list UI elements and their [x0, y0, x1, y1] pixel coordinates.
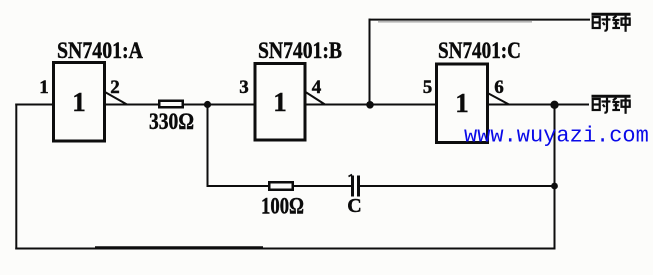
capacitor C left plate — [351, 176, 354, 197]
op-amp U1 gate SN7401:A body — [54, 63, 105, 142]
clock label (right of gate C output) 时钟 — [592, 96, 631, 114]
clock label (top right) 时钟 — [592, 14, 631, 32]
svg-text:6: 6 — [494, 77, 504, 98]
wire gate C output to clock label — [488, 104, 589, 106]
wire feedback to resistor R2 — [207, 185, 270, 187]
svg-text:www.wuyazi.com: www.wuyazi.com — [464, 124, 649, 149]
resistor R2 100 ohm body — [269, 182, 293, 190]
gate A open-collector slash — [104, 92, 127, 105]
svg-text:SN7401:C: SN7401:C — [438, 38, 521, 63]
svg-text:4: 4 — [312, 77, 322, 98]
svg-text:SN7401:A: SN7401:A — [57, 38, 143, 63]
svg-text:100Ω: 100Ω — [261, 194, 304, 219]
svg-text:C: C — [347, 195, 361, 217]
wire gate A output to resistor R1 — [105, 104, 159, 106]
wire gate B output to gate C pin 5 — [306, 104, 436, 106]
svg-text:2: 2 — [110, 77, 120, 98]
wire capacitor C to right vertical — [359, 185, 555, 187]
op-amp U2 gate SN7401:B body — [255, 64, 305, 141]
gate B open-collector slash — [306, 92, 326, 105]
svg-text:330Ω: 330Ω — [149, 109, 194, 134]
wire resistor R2 to capacitor C — [293, 185, 352, 187]
svg-text:SN7401:B: SN7401:B — [258, 38, 342, 63]
svg-text:1: 1 — [72, 87, 86, 117]
capacitor C left plate top tick — [349, 175, 353, 177]
wire top horizontal to clock label — [369, 19, 591, 21]
svg-text:5: 5 — [423, 77, 433, 98]
resistor R1 330 ohm body — [159, 101, 183, 108]
gate C open-collector slash — [489, 94, 510, 105]
node B junction dot (gate B output / top clock) — [366, 101, 374, 109]
wire vertical to top clock line — [369, 19, 371, 105]
op-amp U3 gate SN7401:C body — [437, 64, 488, 143]
wire input to gate A pin 1 — [15, 104, 53, 106]
svg-text:1: 1 — [273, 87, 287, 117]
wire left vertical feedback — [15, 104, 17, 250]
svg-text:3: 3 — [239, 77, 249, 98]
wire feedback vertical from node A down — [207, 105, 209, 188]
capacitor C right plate — [357, 176, 360, 197]
wire right vertical from C output node down — [554, 105, 556, 250]
svg-text:1: 1 — [39, 77, 49, 98]
node D junction dot (capacitor / right vertical) — [551, 183, 558, 190]
svg-text:1: 1 — [455, 88, 469, 118]
wire top horizontal ghost scan line — [378, 21, 532, 23]
wire bottom feedback — [15, 248, 555, 250]
node A junction dot (R1 / gate B / feedback) — [204, 101, 211, 108]
wire bottom overlap (scan double line) — [95, 246, 263, 249]
wire resistor R1 to gate B pin 3 — [183, 104, 255, 106]
node C junction dot (gate C output / right vertical) — [550, 101, 558, 109]
